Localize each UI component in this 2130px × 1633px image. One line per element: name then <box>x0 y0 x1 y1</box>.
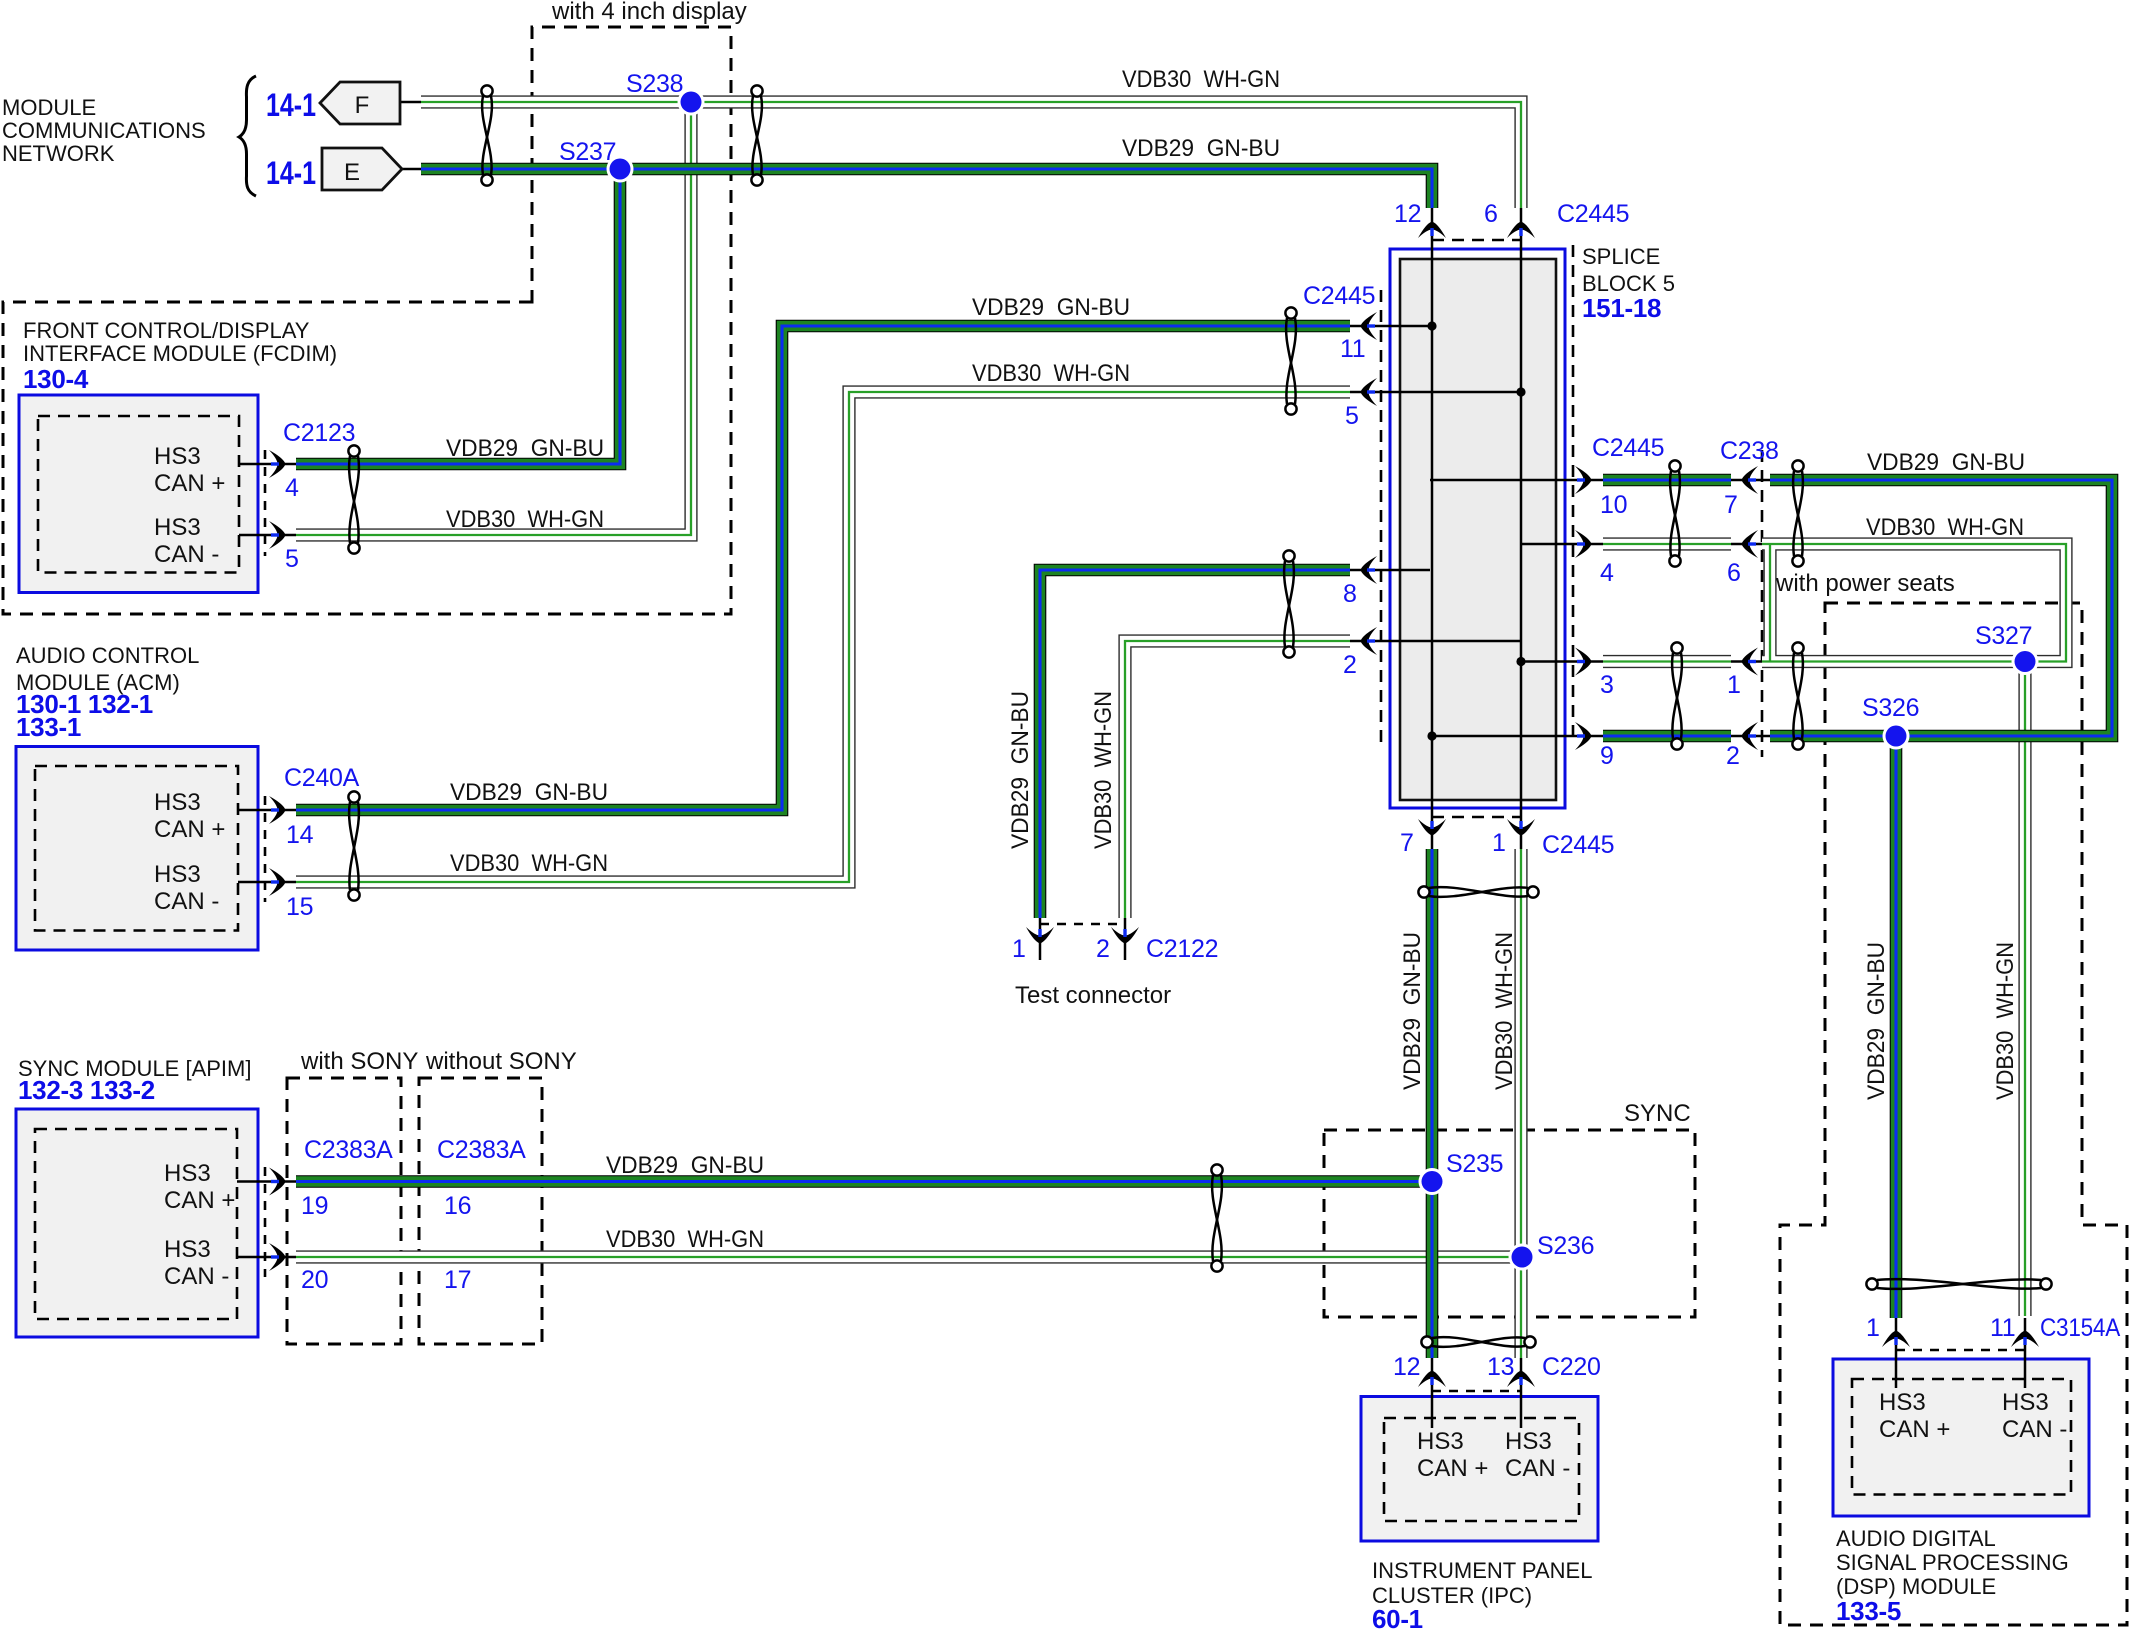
svg-text:INSTRUMENT PANEL: INSTRUMENT PANEL <box>1372 1558 1592 1583</box>
svg-text:C2445: C2445 <box>1542 831 1614 859</box>
label HS3 CAN DSP <box>1879 1389 2067 1443</box>
wire VDB30 splice pin 2 to test connector <box>1125 641 1350 918</box>
wire VDB29 splice 9 to C238 2 <box>1603 730 1731 743</box>
svg-text:60-1: 60-1 <box>1372 1604 1423 1633</box>
label IPC <box>1372 1558 1592 1608</box>
svg-text:14-1: 14-1 <box>266 87 316 123</box>
ACM pin 14 line <box>238 809 296 812</box>
twisted pair on splice 11/5 wires <box>1285 307 1296 414</box>
svg-text:FRONT CONTROL/DISPLAY: FRONT CONTROL/DISPLAY <box>23 318 310 343</box>
svg-text:6: 6 <box>1484 200 1498 228</box>
svg-text:HS3: HS3 <box>154 789 201 816</box>
C240A connector dashed line <box>264 796 267 902</box>
arrow splice pin 10 <box>1575 466 1592 494</box>
arrow FCDIM pin 4 <box>269 450 286 478</box>
svg-text:14: 14 <box>286 821 314 849</box>
svg-text:VDB30 WH-GN: VDB30 WH-GN <box>972 360 1130 387</box>
svg-text:2: 2 <box>1096 935 1110 963</box>
arrow splice pin 2 <box>1361 627 1378 655</box>
arrow DSP pin 11 <box>2011 1331 2039 1348</box>
arrow splice pin 4 <box>1575 530 1592 558</box>
connector E <box>322 148 402 190</box>
twisted pair above C3154A <box>1866 1278 2051 1289</box>
arrow test connector pin 2 <box>1111 927 1139 944</box>
wire VDB29 S237 drop to FCDIM pin 4 <box>296 169 620 464</box>
svg-text:2: 2 <box>1343 651 1357 679</box>
svg-text:13: 13 <box>1487 1353 1514 1381</box>
svg-text:9: 9 <box>1600 742 1614 770</box>
APIM pin 19 line <box>237 1180 296 1183</box>
svg-text:C2122: C2122 <box>1146 935 1218 963</box>
splice S238 <box>678 89 705 116</box>
svg-text:HS3: HS3 <box>1879 1389 1926 1416</box>
DSP module box <box>1833 1359 2089 1516</box>
svg-text:COMMUNICATIONS: COMMUNICATIONS <box>2 118 206 143</box>
ACM pin 15 line <box>238 881 296 884</box>
svg-text:15: 15 <box>286 893 313 921</box>
arrow IPC pin 13 <box>1507 1371 1535 1388</box>
label ACM <box>16 643 199 695</box>
label module communications network <box>2 95 206 166</box>
svg-text:VDB30 WH-GN: VDB30 WH-GN <box>1090 691 1117 849</box>
FCDIM pin 4 line <box>239 463 296 466</box>
svg-text:HS3: HS3 <box>164 1160 211 1187</box>
svg-text:133-1: 133-1 <box>16 712 81 742</box>
brace <box>239 76 256 196</box>
svg-text:S326: S326 <box>1862 694 1919 722</box>
svg-text:Test connector: Test connector <box>1015 982 1171 1009</box>
arrow splice pin 11 <box>1361 312 1378 340</box>
arrow ACM pin 14 <box>269 796 286 824</box>
wire VDB30 S327 drop to DSP <box>2018 662 2031 1317</box>
svg-text:VDB30 WH-GN: VDB30 WH-GN <box>606 1226 764 1253</box>
with 4 inch display / FCDIM outer dashed box <box>3 27 731 614</box>
svg-text:3: 3 <box>1600 671 1614 699</box>
C220 connector dashed line <box>1432 1390 1521 1393</box>
twisted pair on C2123 wires <box>348 445 359 553</box>
splice pin 8 line <box>1350 569 1430 572</box>
wire VDB30 F to splice pin 6 <box>421 102 1521 208</box>
splice pin 2 line <box>1350 640 1521 643</box>
splice bus VDB29 <box>1431 208 1434 849</box>
svg-text:151-18: 151-18 <box>1582 293 1661 323</box>
svg-text:VDB30 WH-GN: VDB30 WH-GN <box>1866 514 2024 541</box>
label FCDIM <box>23 318 337 366</box>
splice S237 <box>607 156 634 183</box>
svg-text:2: 2 <box>1726 742 1740 770</box>
svg-text:INTERFACE MODULE (FCDIM): INTERFACE MODULE (FCDIM) <box>23 341 337 366</box>
C2122 connector dashed line <box>1040 923 1125 926</box>
svg-text:VDB30 WH-GN: VDB30 WH-GN <box>1992 942 2019 1100</box>
junction dot splice pin 9 <box>1427 731 1436 740</box>
wire VDB29 power seats loop <box>1770 480 2112 736</box>
wire VDB30 splice 3 to C238 1 <box>1603 655 1731 668</box>
svg-text:1: 1 <box>1727 671 1741 699</box>
splice S235 <box>1419 1168 1446 1195</box>
svg-text:7: 7 <box>1400 829 1414 857</box>
arrow splice pin 3 <box>1575 648 1592 676</box>
arrow C238 pin 1 <box>1742 648 1759 676</box>
svg-text:VDB29 GN-BU: VDB29 GN-BU <box>1122 135 1280 162</box>
svg-text:VDB29 GN-BU: VDB29 GN-BU <box>450 779 608 806</box>
arrow IPC pin 12 <box>1418 1371 1446 1388</box>
splice pin 4 line <box>1521 543 1603 546</box>
junction dot splice pin 3 <box>1516 657 1525 666</box>
svg-text:CAN +: CAN + <box>1879 1416 1950 1443</box>
svg-text:7: 7 <box>1724 491 1738 519</box>
svg-text:S235: S235 <box>1446 1150 1503 1178</box>
wire VDB29 APIM pin 19 to S235 <box>296 1175 1432 1188</box>
svg-text:AUDIO DIGITAL: AUDIO DIGITAL <box>1836 1526 1996 1551</box>
svg-text:VDB29 GN-BU: VDB29 GN-BU <box>1863 942 1890 1100</box>
arrow splice pin 1 bottom <box>1507 819 1535 836</box>
svg-text:10: 10 <box>1600 491 1627 519</box>
svg-text:5: 5 <box>1345 402 1359 430</box>
svg-text:F: F <box>355 92 370 119</box>
svg-text:SIGNAL PROCESSING: SIGNAL PROCESSING <box>1836 1550 2069 1575</box>
svg-text:CAN +: CAN + <box>1417 1455 1488 1482</box>
test connector pin 1 stub <box>1039 918 1042 960</box>
svg-text:130-4: 130-4 <box>23 364 89 394</box>
DSP pin 1 line <box>1895 1318 1898 1388</box>
SYNC dashed box <box>1324 1130 1695 1317</box>
wire VDB29 E to splice pin 12 <box>421 169 1432 208</box>
C238 pin 2 line <box>1731 735 1770 738</box>
wire VDB30 ACM pin 15 to splice pin 5 <box>296 392 1350 882</box>
svg-text:HS3: HS3 <box>154 443 201 470</box>
C238 connector dashed line <box>1761 450 1764 757</box>
svg-text:C2123: C2123 <box>283 419 355 447</box>
wire VDB30 S238 drop to FCDIM pin 5 <box>296 102 691 535</box>
svg-text:5: 5 <box>285 545 299 573</box>
svg-text:SPLICE: SPLICE <box>1582 244 1660 269</box>
svg-text:12: 12 <box>1394 200 1421 228</box>
svg-text:NETWORK: NETWORK <box>2 141 115 166</box>
wire VDB30 power seats loop <box>1762 544 2066 662</box>
svg-text:VDB30 WH-GN: VDB30 WH-GN <box>450 850 608 877</box>
twisted pair on C2445 10/4 wires <box>1669 460 1680 566</box>
svg-text:VDB30 WH-GN: VDB30 WH-GN <box>1122 66 1280 93</box>
svg-text:133-5: 133-5 <box>1836 1596 1901 1626</box>
arrow ACM pin 15 <box>269 868 286 896</box>
twisted pair on C238 1/2 wires <box>1792 642 1803 749</box>
FCDIM module box <box>19 395 258 593</box>
svg-text:11: 11 <box>1990 1314 2015 1342</box>
wire VDB29 splice 10 to C238 7 <box>1603 474 1731 487</box>
svg-text:S327: S327 <box>1975 622 2032 650</box>
C2445 connector dashed boundary <box>1381 240 1573 817</box>
wire VDB29 splice pin 8 to test connector <box>1040 570 1350 918</box>
svg-text:HS3: HS3 <box>164 1236 211 1263</box>
label DSP <box>1836 1526 2069 1599</box>
splice bus VDB30 <box>1520 208 1523 849</box>
svg-text:CAN -: CAN - <box>164 1263 229 1290</box>
FCDIM pin 5 line <box>239 534 296 537</box>
svg-text:VDB29 GN-BU: VDB29 GN-BU <box>1399 932 1426 1090</box>
svg-text:C2383A: C2383A <box>304 1136 393 1164</box>
twisted pair on splice 8/2 wires <box>1283 550 1294 657</box>
svg-text:17: 17 <box>444 1266 471 1294</box>
E connector lead <box>400 168 424 171</box>
with SONY dashed box <box>287 1078 401 1344</box>
svg-text:HS3: HS3 <box>1505 1428 1552 1455</box>
F connector lead <box>400 101 424 104</box>
svg-text:VDB30 WH-GN: VDB30 WH-GN <box>1491 932 1518 1090</box>
arrow C238 pin 2 <box>1742 722 1759 750</box>
without SONY dashed box <box>419 1078 542 1344</box>
splice pin 11 line <box>1350 325 1430 328</box>
svg-text:8: 8 <box>1343 580 1357 608</box>
svg-text:VDB29 GN-BU: VDB29 GN-BU <box>606 1152 764 1179</box>
connector F <box>320 82 400 124</box>
twisted pair below SYNC box <box>1421 1336 1535 1347</box>
svg-text:with power seats: with power seats <box>1775 570 1955 597</box>
arrow C238 pin 6 <box>1742 530 1759 558</box>
svg-text:VDB29 GN-BU: VDB29 GN-BU <box>446 435 604 462</box>
svg-text:HS3: HS3 <box>1417 1428 1464 1455</box>
C238 pin 6 line <box>1731 543 1762 546</box>
svg-text:C238: C238 <box>1720 437 1779 465</box>
svg-text:4: 4 <box>1600 559 1614 587</box>
svg-text:CAN +: CAN + <box>164 1187 235 1214</box>
svg-text:C2445: C2445 <box>1303 282 1375 310</box>
arrow FCDIM pin 5 <box>269 521 286 549</box>
svg-text:CAN -: CAN - <box>154 541 219 568</box>
twisted pair on C2383A wires <box>1211 1164 1222 1271</box>
twisted pair on C238 7/6 wires <box>1792 460 1803 566</box>
svg-text:VDB29 GN-BU: VDB29 GN-BU <box>1867 449 2025 476</box>
svg-text:12: 12 <box>1393 1353 1420 1381</box>
svg-text:C2383A: C2383A <box>437 1136 526 1164</box>
svg-text:14-1: 14-1 <box>266 155 316 191</box>
svg-text:CAN +: CAN + <box>154 470 225 497</box>
wire VDB29 splice pin 7 to IPC <box>1426 849 1439 1358</box>
svg-text:C3154A: C3154A <box>2040 1314 2121 1342</box>
with power seats / DSP option dashed box <box>1780 603 2127 1625</box>
splice S326 <box>1883 723 1910 750</box>
svg-text:19: 19 <box>301 1192 328 1220</box>
wire VDB30 splice 4 to C238 6 <box>1603 537 1731 550</box>
svg-text:with SONY: with SONY <box>300 1048 418 1075</box>
arrow APIM pin 20 <box>269 1243 286 1271</box>
splice pin 10 line <box>1430 479 1603 482</box>
svg-text:S238: S238 <box>626 70 683 98</box>
label splice block 5 <box>1582 244 1675 296</box>
splice S327 <box>2012 648 2039 675</box>
splice pin 3 line <box>1521 660 1603 663</box>
twisted pair on F/E at x=757 <box>751 85 762 185</box>
svg-text:HS3: HS3 <box>154 861 201 888</box>
splice pin 5 line <box>1350 391 1521 394</box>
svg-text:C220: C220 <box>1542 1353 1601 1381</box>
wire VDB29 ACM pin 14 to splice pin 11 <box>296 326 1350 810</box>
wire VDB29 S326 drop to DSP <box>1890 736 1903 1318</box>
svg-text:CAN -: CAN - <box>154 888 219 915</box>
svg-text:C2445: C2445 <box>1557 200 1629 228</box>
arrow C238 pin 7 <box>1742 466 1759 494</box>
arrow splice pin 8 <box>1361 556 1378 584</box>
arrow APIM pin 19 <box>269 1168 286 1196</box>
wire VDB30 APIM pin 20 to S236 <box>296 1250 1522 1263</box>
svg-text:S237: S237 <box>559 138 616 166</box>
splice pin 9 line <box>1430 735 1603 738</box>
wire VDB30 splice pin 1 to IPC <box>1514 849 1527 1358</box>
svg-text:with 4 inch display: with 4 inch display <box>551 0 747 25</box>
C3154A connector dashed line <box>1896 1349 2025 1352</box>
twisted pair on F/E at x=487 <box>481 85 492 185</box>
svg-text:CAN +: CAN + <box>154 816 225 843</box>
APIM module box <box>16 1109 258 1337</box>
svg-text:E: E <box>344 159 360 186</box>
svg-text:16: 16 <box>444 1192 471 1220</box>
label HS3 CAN ACM <box>154 789 225 915</box>
svg-text:6: 6 <box>1727 559 1741 587</box>
arrow splice pin 6 top <box>1507 222 1535 239</box>
C2383A connector dashed line <box>264 1167 267 1277</box>
svg-text:1: 1 <box>1866 1314 1880 1342</box>
svg-text:1: 1 <box>1012 935 1026 963</box>
svg-text:AUDIO CONTROL: AUDIO CONTROL <box>16 643 199 668</box>
arrow splice pin 9 <box>1575 722 1592 750</box>
splice block 5 body <box>1390 249 1565 808</box>
svg-text:C2445: C2445 <box>1592 434 1664 462</box>
splice S236 <box>1509 1244 1536 1271</box>
test connector pin 2 stub <box>1124 918 1127 960</box>
arrow DSP pin 1 <box>1882 1331 1910 1348</box>
arrow test connector pin 1 <box>1026 927 1054 944</box>
svg-text:VDB29 GN-BU: VDB29 GN-BU <box>972 294 1130 321</box>
ACM module box <box>16 747 258 951</box>
arrow splice pin 5 <box>1361 378 1378 406</box>
svg-text:132-3 133-2: 132-3 133-2 <box>18 1075 155 1105</box>
C238 pin 1 line <box>1731 660 1762 663</box>
svg-text:S236: S236 <box>1537 1232 1594 1260</box>
IPC module box <box>1361 1397 1598 1542</box>
C2123 connector dashed line <box>264 450 267 556</box>
svg-text:20: 20 <box>301 1266 328 1294</box>
junction dot splice pin 5 <box>1516 387 1525 396</box>
C238 pin 7 line <box>1731 479 1770 482</box>
twisted pair on C2445 3/9 wires <box>1671 642 1682 749</box>
svg-text:11: 11 <box>1340 335 1365 363</box>
svg-text:HS3: HS3 <box>154 514 201 541</box>
DSP pin 11 line <box>2024 1318 2027 1388</box>
svg-text:C240A: C240A <box>284 764 360 792</box>
arrow splice pin 12 <box>1418 222 1446 239</box>
junction dot splice pin 11 <box>1427 321 1436 330</box>
IPC pin 12 line <box>1431 1358 1434 1428</box>
svg-text:CAN -: CAN - <box>2002 1416 2067 1443</box>
svg-text:4: 4 <box>285 474 299 502</box>
APIM pin 20 line <box>237 1256 296 1259</box>
svg-text:MODULE: MODULE <box>2 95 96 120</box>
label HS3 CAN FCDIM <box>154 443 225 568</box>
svg-text:without SONY: without SONY <box>425 1048 577 1075</box>
svg-text:SYNC: SYNC <box>1624 1100 1691 1127</box>
svg-text:1: 1 <box>1492 829 1506 857</box>
twisted pair on C240A wires <box>348 791 359 900</box>
svg-text:VDB29 GN-BU: VDB29 GN-BU <box>1007 691 1034 849</box>
IPC pin 13 line <box>1520 1358 1523 1428</box>
label HS3 CAN IPC <box>1417 1428 1570 1482</box>
twisted pair above C220 <box>1418 886 1538 897</box>
svg-text:HS3: HS3 <box>2002 1389 2049 1416</box>
arrow splice pin 7 bottom <box>1418 819 1446 836</box>
label HS3 CAN APIM <box>164 1160 235 1290</box>
svg-text:CAN -: CAN - <box>1505 1455 1570 1482</box>
svg-text:VDB30 WH-GN: VDB30 WH-GN <box>446 506 604 533</box>
